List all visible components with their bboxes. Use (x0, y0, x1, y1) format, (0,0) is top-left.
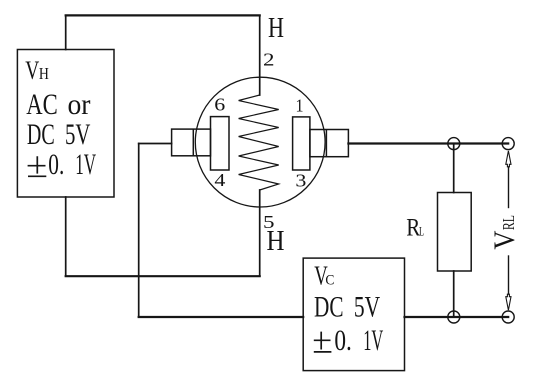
wire RL top vertical (453, 144, 455, 193)
terminal node top left (448, 138, 460, 150)
wire top heater supply (66, 14, 260, 16)
svg-text:3: 3 (295, 171, 306, 191)
wire bottom rail (405, 316, 509, 318)
svg-text:DC: DC (314, 292, 344, 324)
svg-text:or: or (68, 89, 91, 121)
pin tab left (172, 129, 211, 156)
svg-text:H: H (268, 12, 284, 44)
svg-text:V: V (489, 231, 521, 250)
wire pin2 vertical (259, 15, 261, 95)
svg-text:L: L (419, 223, 424, 238)
svg-text:1: 1 (296, 95, 304, 115)
voltage source box VH (17, 50, 114, 198)
wire RL bottom vertical (453, 271, 455, 317)
wire VH box bottom vertical (65, 197, 67, 276)
svg-text:DC: DC (27, 119, 55, 151)
svg-text:H: H (39, 64, 49, 83)
voltage source box VC (303, 258, 404, 371)
terminal node top right (502, 138, 514, 150)
pin tab right divider (325, 130, 327, 157)
plus-minus sign VH box (28, 156, 47, 176)
wire VH box top vertical (65, 15, 67, 49)
svg-text:V: V (25, 55, 39, 85)
svg-text:5V: 5V (65, 119, 90, 151)
arrow up VRL (506, 151, 511, 167)
svg-text:2: 2 (263, 50, 275, 70)
wire VRL lower segment (508, 256, 510, 294)
svg-text:5V: 5V (354, 292, 380, 324)
terminal node bottom right (502, 311, 514, 323)
wire right tab to terminals (348, 142, 508, 144)
svg-text:RL: RL (499, 215, 518, 230)
svg-text:0.: 0. (48, 149, 64, 181)
svg-text:AC: AC (26, 89, 57, 121)
wire left sense vertical (138, 144, 140, 318)
svg-text:1V: 1V (75, 149, 96, 181)
label VRL rotated (489, 215, 521, 250)
svg-text:4: 4 (214, 170, 225, 190)
wire pin5 vertical (259, 190, 261, 276)
wire VC box left horizontal (139, 316, 304, 318)
svg-text:H: H (267, 226, 285, 257)
svg-text:1V: 1V (363, 325, 383, 357)
svg-text:C: C (325, 273, 334, 289)
resistor RL (438, 193, 472, 272)
electrode left (211, 117, 230, 170)
heater coil (239, 95, 279, 190)
arrow down VRL (506, 294, 511, 310)
terminal node bottom left (448, 311, 460, 323)
wire VRL upper segment (508, 167, 510, 208)
wire heater bottom horizontal (66, 275, 260, 277)
plus-minus sign VC box (314, 332, 332, 352)
pin tab right (310, 130, 349, 157)
pin tab left divider (192, 129, 194, 156)
svg-text:0.: 0. (334, 325, 352, 357)
electrode right (293, 117, 310, 170)
sensor body circle (195, 77, 325, 207)
svg-text:6: 6 (214, 95, 225, 115)
wire left tab horizontal (139, 143, 172, 145)
